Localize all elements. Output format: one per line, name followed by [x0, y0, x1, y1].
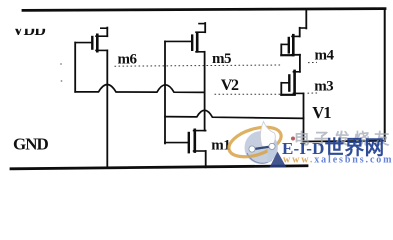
- svg-text:m4: m4: [315, 48, 335, 64]
- svg-text:GND: GND: [13, 134, 49, 153]
- svg-text:www.xalesbns.com.cn: www.xalesbns.com.cn: [283, 155, 393, 166]
- svg-text:m3: m3: [314, 79, 333, 95]
- svg-text:V1: V1: [312, 103, 331, 122]
- svg-text:m6: m6: [118, 51, 138, 67]
- svg-text:V2: V2: [221, 77, 239, 94]
- svg-text:m1: m1: [211, 138, 230, 154]
- svg-text:m5: m5: [212, 51, 231, 67]
